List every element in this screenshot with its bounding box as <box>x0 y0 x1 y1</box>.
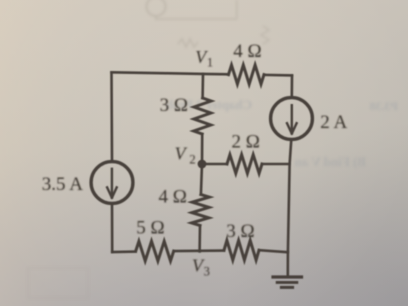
svg-text:1: 1 <box>207 55 213 69</box>
svg-text:3 Ω: 3 Ω <box>226 221 254 242</box>
svg-text:4 Ω: 4 Ω <box>233 41 261 62</box>
svg-text:3 Ω: 3 Ω <box>160 95 188 116</box>
svg-text:P3.38: P3.38 <box>370 99 398 113</box>
svg-text:3.5 A: 3.5 A <box>42 174 83 195</box>
svg-text:2 A: 2 A <box>320 112 347 133</box>
svg-text:2: 2 <box>189 152 195 166</box>
svg-text:5 Ω: 5 Ω <box>136 218 164 239</box>
svg-text:B) Find V an: B) Find V an <box>294 154 366 169</box>
svg-text:2 Ω: 2 Ω <box>232 131 260 152</box>
svg-text:4 Ω: 4 Ω <box>159 186 187 207</box>
svg-text:3: 3 <box>204 265 210 279</box>
